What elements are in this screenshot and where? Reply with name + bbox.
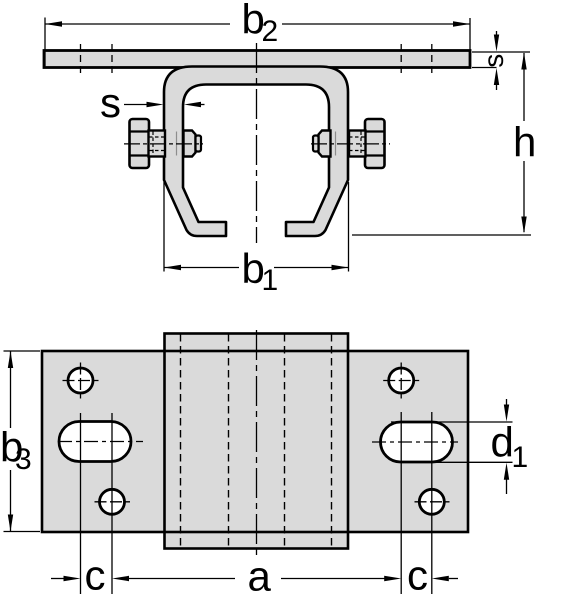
hidden rail edges (dashed): [180, 334, 182, 548]
dimension s (wall thickness, leader): [100, 79, 205, 126]
rail profile (C-channel cross section): [164, 67, 348, 237]
bolt right hidden hole edge: [335, 132, 337, 156]
hole bottom-right: [419, 489, 444, 514]
top plate (section view): [44, 51, 470, 68]
dimension a: [112, 553, 401, 600]
bolt right shank: [349, 131, 366, 157]
svg-text:s: s: [478, 54, 509, 68]
svg-text:1: 1: [512, 441, 529, 474]
bolt right head: [365, 119, 385, 168]
vertical centerline top view: [256, 43, 258, 243]
slot left: [59, 422, 131, 462]
dimension c right: [407, 552, 458, 599]
rail band outline: [165, 334, 349, 549]
vertical centerline bottom view: [256, 330, 258, 555]
svg-text:c: c: [85, 552, 106, 599]
mounting plate fill: [42, 351, 468, 532]
dimension h: [352, 53, 536, 236]
bolt left head: [130, 119, 150, 168]
svg-text:2: 2: [262, 15, 279, 48]
hole centerlines crossing plate (section): [80, 44, 82, 74]
bolt left nut: [184, 131, 196, 157]
svg-text:1: 1: [262, 264, 279, 297]
bolt right centerline: [311, 143, 390, 145]
bolt right nut: [319, 131, 331, 157]
bolt left tip: [196, 136, 202, 152]
hole bottom-left: [100, 489, 125, 514]
dimension c left: [51, 552, 106, 599]
dimension b1: [164, 182, 349, 297]
bolt right tip: [313, 136, 319, 152]
svg-text:h: h: [513, 119, 536, 166]
crosshair bottom-left hole: [95, 501, 131, 503]
bolt left hidden hole edge: [176, 132, 178, 156]
slot right: [381, 422, 453, 462]
svg-text:d: d: [491, 419, 514, 466]
mounting plate outline: [42, 351, 468, 532]
rail band fill: [165, 334, 349, 549]
bolt left centerline: [124, 143, 203, 145]
crosshair top-right hole: [383, 363, 419, 399]
crosshair bottom-right hole: [415, 501, 450, 503]
svg-text:c: c: [407, 552, 428, 599]
extension lines to bottom dims: [80, 413, 82, 594]
slot left centerline: [58, 441, 143, 443]
slot right centerline: [372, 441, 458, 443]
hole top-left: [68, 368, 93, 393]
dimension d1: [391, 399, 528, 494]
dimension b3: [0, 351, 40, 532]
bolt left shank: [149, 131, 166, 157]
dimension s (plate thickness, right): [472, 31, 530, 90]
svg-text:s: s: [100, 79, 121, 126]
svg-text:a: a: [248, 553, 272, 600]
svg-text:3: 3: [15, 443, 32, 476]
crosshair top-left hole: [63, 363, 99, 399]
dimension b2: [45, 0, 470, 66]
hole top-right: [389, 368, 414, 393]
